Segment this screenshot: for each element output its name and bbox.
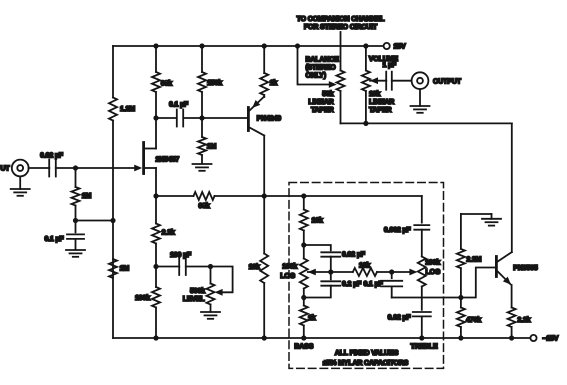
svg-text:0.1 µF: 0.1 µF [44, 236, 64, 243]
wire 100uF right lead [186, 266, 211, 268]
potentiometer 10k VOLUME [362, 46, 398, 123]
node source [153, 193, 158, 198]
wire jack to cap [29, 167, 50, 169]
node 2N5457 drain [153, 115, 158, 120]
wire base PN3565 [461, 268, 495, 298]
wire 100uF left lead [156, 266, 179, 268]
wire source to 68k [156, 195, 194, 197]
wire drain up [155, 118, 157, 149]
svg-text:ALL FIXED VALUES: ALL FIXED VALUES [335, 350, 399, 357]
wire +15V top rail [113, 45, 383, 47]
terminal -15V supply [530, 335, 558, 343]
resistor 68k (feedback) [194, 192, 215, 210]
potentiometer 500k LEVEL [183, 267, 215, 312]
wire base PN4249 [202, 117, 247, 119]
wire emitter to 2.2k [511, 285, 513, 308]
svg-text:10k: 10k [359, 263, 370, 270]
wire collector down [263, 136, 265, 197]
svg-text:150k: 150k [207, 80, 222, 87]
node volume bottom [363, 121, 368, 126]
wire bias node to divider [76, 220, 114, 222]
svg-text:500k: 500k [190, 288, 205, 295]
svg-text:LEVEL: LEVEL [183, 296, 206, 303]
wire left column middle [112, 121, 114, 339]
ground 500k level [201, 312, 220, 319]
terminal 15V supply [384, 43, 406, 51]
node 10k bottom [262, 335, 267, 340]
svg-text:100 µF: 100 µF [170, 252, 192, 259]
svg-text:LOG: LOG [426, 269, 441, 276]
JFET Q1 2N5457 [134, 143, 179, 174]
wire companion channel [340, 32, 342, 71]
svg-text:BASS: BASS [294, 344, 313, 351]
svg-text:BALANCE: BALANCE [306, 57, 340, 64]
capacitor 0.002uF treble [384, 225, 429, 234]
node balance wiper feed [295, 43, 300, 48]
svg-text:1 µF: 1 µF [383, 62, 397, 69]
wire down to PN3565 collector [511, 123, 513, 252]
svg-text:2.2k: 2.2k [517, 317, 530, 324]
svg-text:OUTPUT: OUTPUT [433, 78, 462, 85]
potentiometer 100k TREBLE [418, 230, 441, 310]
wire cap right lead [183, 117, 202, 119]
wiper arrow 500k level [215, 289, 223, 296]
wire cap left lead [156, 117, 177, 119]
wire 68k to tone box [215, 195, 422, 197]
resistor 2.2M [457, 214, 482, 298]
wire collector to 10k [263, 196, 265, 254]
wire level rheostat loop [211, 267, 233, 293]
potentiometer 50k BALANCE [306, 57, 345, 124]
node bass branch top [301, 193, 306, 198]
svg-text:68k: 68k [161, 80, 172, 87]
label TREBLE [410, 344, 438, 351]
wire treble bottom row [392, 297, 461, 299]
jack J2 output [412, 72, 462, 89]
node volume top [363, 43, 368, 48]
svg-text:0.002 µF: 0.002 µF [384, 227, 411, 234]
ground input bypass [66, 250, 85, 257]
svg-text:10k: 10k [312, 218, 323, 225]
wiper arrow balance [329, 81, 337, 88]
ground 1M base resistor [193, 164, 212, 171]
wire bass wiper row left [308, 271, 331, 273]
resistor 2.2k (emitter) [508, 308, 531, 339]
resistor 10k (wiper row) [353, 263, 377, 276]
resistor 68k (supply) [152, 72, 172, 92]
wire 68k top lead [155, 46, 157, 72]
wire 2.2M top to ground [461, 213, 492, 215]
svg-text:TAPER: TAPER [369, 107, 392, 114]
wiper arrow bass [308, 269, 316, 276]
svg-text:ONLY): ONLY) [306, 73, 326, 80]
svg-text:2N5457: 2N5457 [156, 157, 180, 164]
transistor Q2 PN4249 [248, 97, 281, 136]
svg-text:–15V: –15V [543, 336, 559, 343]
resistor 10k (collector load) [249, 254, 269, 284]
capacitor 0.1uF treble shunt [364, 272, 403, 298]
capacitor 1uF output [386, 72, 392, 90]
svg-text:PN3565: PN3565 [513, 265, 538, 272]
wire 10k bottom [263, 283, 265, 338]
svg-text:0.1 µF: 0.1 µF [169, 102, 189, 109]
svg-text:0.02 µF: 0.02 µF [40, 153, 64, 160]
node bass bottom rail [301, 335, 306, 340]
node bass bottom [301, 295, 306, 300]
wire volume wiper to cap [370, 80, 386, 82]
svg-text:TAPER: TAPER [311, 107, 334, 114]
node treble bottom rail [419, 335, 424, 340]
node divider mid [110, 218, 115, 223]
svg-text:0.02 µF: 0.02 µF [388, 315, 412, 322]
capacitor 0.02uF input [40, 153, 64, 177]
node base network [458, 295, 463, 300]
svg-text:100k: 100k [282, 264, 297, 271]
node 150k top [199, 43, 204, 48]
ground output jack [411, 89, 430, 113]
resistor 150k [198, 72, 222, 92]
svg-text:LINEAR: LINEAR [369, 99, 394, 106]
resistor 100k (source lower) [135, 267, 160, 339]
node collector / feedback [262, 193, 267, 198]
svg-text:0.2 µF: 0.2 µF [342, 281, 362, 288]
svg-text:1M: 1M [82, 193, 92, 200]
capacitor 0.02uF bass upper [304, 245, 366, 272]
resistor 1M (PN4249 base) [198, 118, 217, 164]
wire 68k bottom lead [155, 92, 157, 118]
svg-text:2.2k: 2.2k [162, 230, 175, 237]
label BASS [294, 344, 313, 351]
node bias mid [73, 218, 78, 223]
svg-text:±5% MYLAR CAPACITORS: ±5% MYLAR CAPACITORS [323, 360, 409, 367]
node bass 0.02uF tap [301, 242, 306, 247]
svg-text:(STEREO: (STEREO [306, 65, 337, 72]
node bass wiper / caps [328, 269, 333, 274]
svg-text:68k: 68k [198, 203, 209, 210]
svg-text:UT: UT [1, 165, 11, 172]
wiper arrow volume [370, 77, 378, 84]
wire 1k bottom lead [263, 95, 265, 97]
node 100uF [153, 264, 158, 269]
svg-text:LINEAR: LINEAR [308, 99, 333, 106]
jack J1 input [12, 160, 29, 177]
capacitor 100uF [170, 252, 192, 275]
wire balance wiper feed [298, 46, 334, 85]
wire wiper row to treble arrow [392, 271, 415, 273]
svg-text:TO COMPANION CHANNEL: TO COMPANION CHANNEL [297, 16, 386, 23]
wire 150k top lead [201, 46, 203, 72]
svg-text:0.02 µF: 0.02 µF [342, 251, 366, 258]
wiper arrow treble [409, 269, 417, 276]
svg-text:10k: 10k [369, 91, 380, 98]
svg-text:FOR STEREO CIRCUIT: FOR STEREO CIRCUIT [304, 24, 378, 31]
node 470k bottom [458, 335, 463, 340]
wire wiper row to 10k [331, 271, 353, 273]
node 2.2k bottom [509, 335, 514, 340]
svg-text:2.2M: 2.2M [466, 257, 481, 264]
transistor Q3 PN3565 [496, 252, 537, 285]
capacitor 0.2uF bass lower [304, 272, 362, 298]
svg-text:100k: 100k [425, 260, 440, 267]
svg-text:15V: 15V [394, 44, 406, 51]
dashed box tone control [289, 183, 444, 369]
capacitor 0.1uF interstage [169, 102, 189, 127]
ground 2.2M [482, 214, 501, 226]
resistor 1k (bass bottom) [300, 298, 316, 339]
resistor 2.2k (source) [152, 196, 175, 267]
ground input jack [11, 176, 30, 195]
wire 10k to node [303, 231, 305, 246]
wire source down [155, 168, 157, 196]
svg-text:0.1 µF: 0.1 µF [364, 281, 384, 288]
wire 1k top lead [263, 46, 265, 73]
resistor 470k [457, 298, 481, 339]
node 100k bottom [153, 335, 158, 340]
label input [1, 165, 11, 172]
svg-text:10k: 10k [249, 264, 260, 271]
label to companion channel [297, 16, 386, 31]
wire gate node to JFET gate [76, 167, 137, 169]
wire left column upper (to 1.2M) [112, 46, 114, 98]
svg-text:100k: 100k [135, 295, 150, 302]
svg-text:470k: 470k [466, 317, 481, 324]
wire balance-volume bottom rail [341, 122, 512, 124]
wire 10k to treble node [377, 271, 392, 273]
wire -15V bottom rail [113, 337, 530, 339]
wire treble top lead [421, 196, 423, 223]
node gate [73, 165, 78, 170]
svg-text:LOG: LOG [280, 273, 295, 280]
svg-text:1k: 1k [270, 80, 278, 87]
node 68k top [153, 43, 158, 48]
node 0.1uF right [199, 115, 204, 120]
resistor 10k (bass top) [300, 196, 323, 231]
svg-text:1k: 1k [308, 315, 316, 322]
wire cap to gate node [56, 167, 76, 169]
resistor 1M (gate bias) [72, 168, 92, 221]
node treble 0.1uF tap [389, 269, 394, 274]
svg-text:TREBLE: TREBLE [410, 344, 438, 351]
svg-text:50k: 50k [322, 91, 333, 98]
node 1k top [262, 43, 267, 48]
resistor 1.2M [109, 98, 135, 121]
potentiometer 100k BASS [280, 245, 308, 298]
label all fixed values [323, 350, 409, 367]
svg-text:1M: 1M [120, 266, 130, 273]
svg-text:1.2M: 1.2M [120, 106, 135, 113]
capacitor 0.1uF input bypass [44, 221, 84, 250]
resistor 1k (PN4249 emitter) [260, 73, 277, 95]
wire cap to output jack [392, 80, 412, 82]
wire 150k bottom lead [201, 92, 203, 118]
resistor 1M (divider lower) [109, 259, 129, 278]
svg-text:PN4249: PN4249 [257, 115, 282, 122]
capacitor 0.02uF treble lower [388, 312, 431, 338]
svg-text:1M: 1M [207, 144, 217, 151]
node level top [208, 264, 213, 269]
